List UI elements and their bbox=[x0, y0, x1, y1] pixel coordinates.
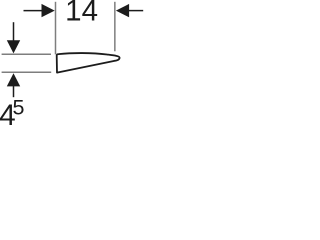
wedge profile outline bbox=[57, 53, 120, 73]
extension line lower horizontal (dim 45) bbox=[2, 71, 52, 73]
dim 45 down arrowhead bbox=[7, 40, 20, 53]
dim 45 upper tail wire bbox=[13, 22, 15, 41]
extension line upper horizontal (dim 45) bbox=[2, 53, 51, 55]
extension line right vertical (dim 14) bbox=[114, 2, 116, 52]
dim 14 left arrowhead bbox=[42, 4, 55, 17]
dim 14 left tail wire bbox=[24, 10, 44, 12]
svg-text:14: 14 bbox=[65, 0, 98, 28]
svg-text:5: 5 bbox=[13, 95, 25, 119]
dim 45 up arrowhead bbox=[7, 73, 20, 86]
extension line left vertical (dim 14) bbox=[55, 2, 57, 55]
dim 45 lower tail wire bbox=[13, 86, 15, 98]
dim 14 right arrowhead bbox=[116, 4, 129, 17]
dim 14 right tail wire bbox=[129, 10, 144, 12]
